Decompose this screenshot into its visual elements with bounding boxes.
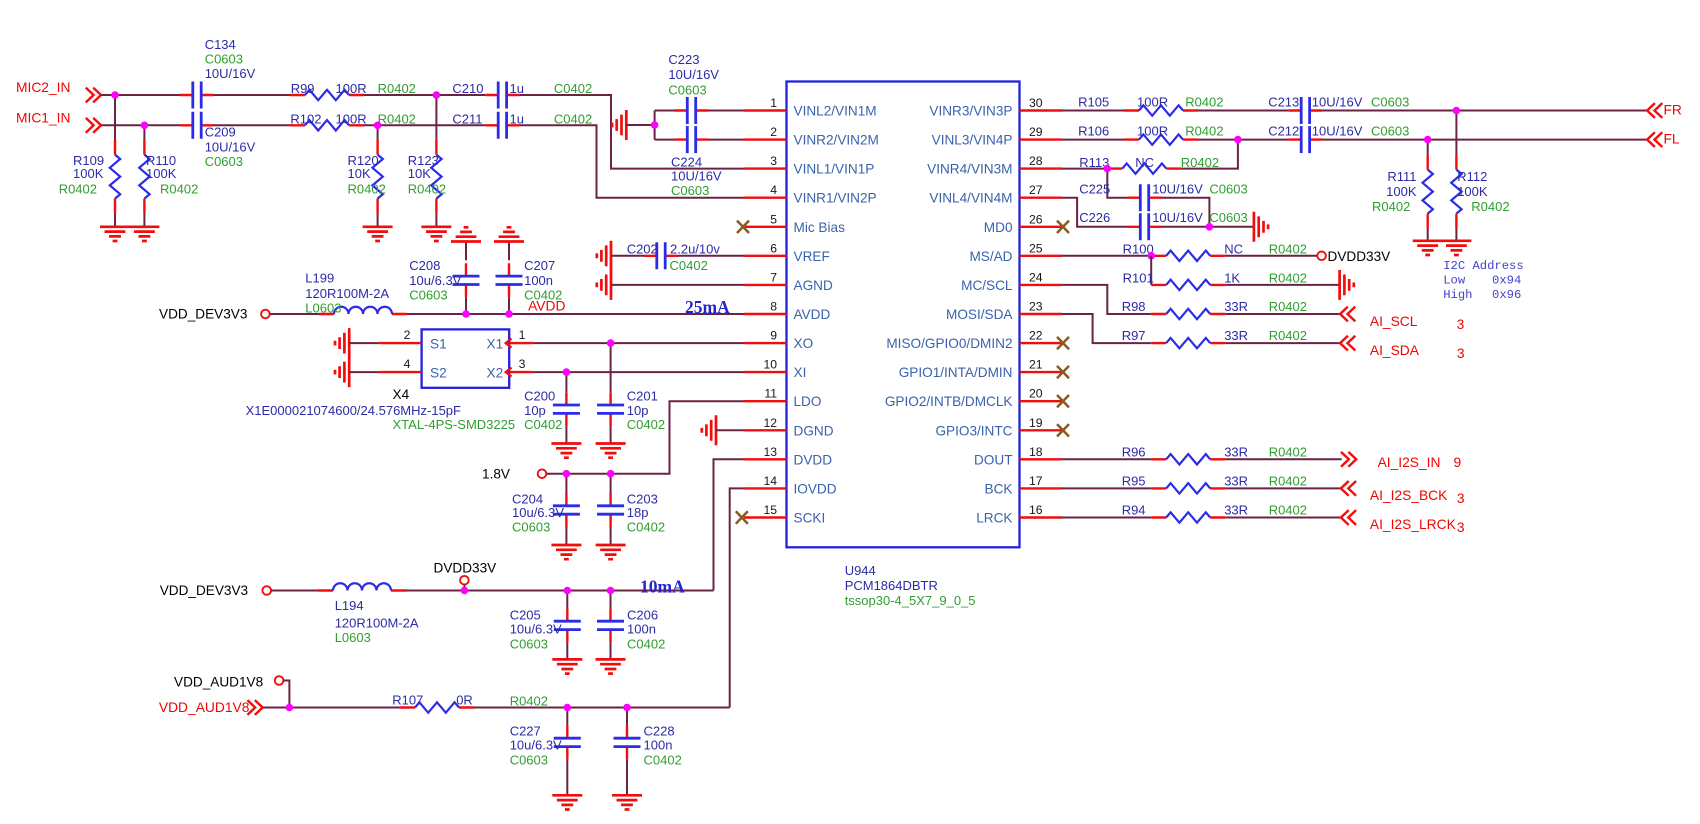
svg-text:100n: 100n — [627, 622, 656, 637]
capacitor C201 — [597, 343, 665, 443]
svg-text:R0402: R0402 — [1269, 328, 1307, 343]
ground for C223/C224 common — [612, 110, 626, 140]
X4 pin 2 S1 — [378, 328, 421, 343]
svg-text:100R: 100R — [1137, 94, 1168, 109]
crystal X4 body — [422, 329, 510, 387]
svg-text:C228: C228 — [644, 724, 675, 739]
svg-text:C0402: C0402 — [670, 258, 708, 273]
ground AGND — [597, 270, 611, 300]
svg-text:X2: X2 — [487, 366, 504, 381]
wire S2 to ground — [349, 371, 378, 373]
svg-text:0x96: 0x96 — [1492, 288, 1521, 302]
svg-text:10U/16V: 10U/16V — [205, 66, 256, 81]
svg-text:10U/16V: 10U/16V — [1152, 210, 1203, 225]
ground C225/C226 — [1254, 212, 1268, 242]
svg-text:C0603: C0603 — [1209, 181, 1247, 196]
svg-text:VINR4/VIN3M: VINR4/VIN3M — [927, 162, 1012, 177]
wire R96 to AI_I2S_IN — [1225, 458, 1342, 460]
svg-text:VINL4/VIN4M: VINL4/VIN4M — [929, 191, 1012, 206]
resistor R100 — [1123, 242, 1307, 262]
wire R98 to AI_SCL — [1225, 313, 1340, 315]
junction 1.8V/C203 — [607, 470, 615, 478]
svg-text:2.2u/10v: 2.2u/10v — [670, 242, 720, 257]
svg-text:R102: R102 — [290, 112, 321, 127]
no-connect X pin 22 — [1057, 337, 1069, 349]
svg-text:R107: R107 — [392, 693, 423, 708]
svg-text:100K: 100K — [1457, 184, 1488, 199]
svg-text:VINR2/VIN2M: VINR2/VIN2M — [794, 133, 879, 148]
capacitor C210 — [452, 81, 592, 109]
wire R99 out to C210 — [364, 94, 485, 96]
svg-text:R0402: R0402 — [59, 182, 97, 197]
svg-text:10: 10 — [763, 358, 777, 372]
inductor L199 — [305, 271, 407, 316]
wire R105 to C213 — [1198, 110, 1288, 112]
wire C134 to R99 — [214, 94, 290, 96]
svg-text:AGND: AGND — [794, 278, 833, 293]
svg-text:21: 21 — [1029, 358, 1043, 372]
wire DGND — [716, 429, 744, 431]
svg-text:3: 3 — [1457, 520, 1465, 535]
capacitor C223 — [655, 52, 744, 124]
svg-text:L199: L199 — [305, 271, 334, 286]
svg-text:VDD_DEV3V3: VDD_DEV3V3 — [159, 307, 247, 322]
resistor R95 — [1122, 474, 1307, 494]
svg-text:AVDD: AVDD — [528, 299, 565, 314]
resistor R105 — [1078, 94, 1223, 115]
svg-text:28: 28 — [1029, 154, 1043, 168]
wire R94 to AI_I2S_LRCK — [1225, 517, 1341, 519]
wire AGND pin 7 — [611, 284, 744, 286]
wire pin 27 down to C226 — [1062, 198, 1128, 227]
svg-text:33R: 33R — [1224, 445, 1248, 460]
no-connect X pin 26 — [1057, 221, 1069, 233]
svg-text:2: 2 — [770, 125, 777, 139]
svg-text:IOVDD: IOVDD — [794, 481, 837, 496]
svg-text:C0603: C0603 — [1371, 94, 1409, 109]
U944 pin 3 VINL1/VIN1P — [744, 154, 874, 177]
svg-text:C213: C213 — [1268, 94, 1299, 109]
junction R113/FL — [1234, 136, 1242, 144]
svg-text:R0402: R0402 — [1269, 503, 1307, 518]
svg-text:XTAL-4PS-SMD3225: XTAL-4PS-SMD3225 — [393, 417, 516, 432]
resistor R120 — [348, 125, 386, 227]
wire pin 25 to R100 — [1062, 255, 1151, 257]
wire R113 up to FL net — [1181, 140, 1238, 169]
svg-text:R0402: R0402 — [1471, 199, 1509, 214]
U944 pin 14 IOVDD — [744, 474, 837, 497]
svg-text:R0402: R0402 — [1269, 242, 1307, 257]
svg-text:MS/AD: MS/AD — [969, 249, 1012, 264]
resistor R111 — [1372, 140, 1433, 241]
svg-text:10u/6.3V: 10u/6.3V — [409, 273, 461, 288]
svg-text:AI_I2S_BCK: AI_I2S_BCK — [1370, 488, 1448, 503]
svg-text:C226: C226 — [1079, 210, 1110, 225]
resistor R101 — [1123, 271, 1307, 291]
svg-text:18p: 18p — [627, 505, 649, 520]
resistor R99 — [290, 81, 416, 100]
port MIC1_IN — [16, 111, 101, 133]
svg-text:C0603: C0603 — [205, 52, 243, 67]
svg-text:AVDD: AVDD — [794, 307, 831, 322]
svg-text:26: 26 — [1029, 212, 1043, 226]
capacitor C202 — [611, 242, 744, 273]
wire DVDD rail — [271, 590, 714, 592]
junction MIC2/R123 — [433, 91, 441, 99]
svg-text:DOUT: DOUT — [974, 452, 1013, 467]
svg-text:24: 24 — [1029, 270, 1043, 284]
svg-text:L0603: L0603 — [305, 301, 341, 316]
wire pin 17 BCK — [1062, 487, 1151, 489]
svg-text:R105: R105 — [1078, 94, 1109, 109]
svg-text:C225: C225 — [1079, 181, 1110, 196]
capacitor C227 — [510, 708, 581, 796]
svg-text:10u/6.3V: 10u/6.3V — [510, 738, 562, 753]
ground S1 — [335, 328, 349, 358]
wire IOVDD pin 14 down to AUD1V8 rail — [730, 488, 744, 707]
junction X1/C201 — [607, 339, 615, 347]
wire C225 right, down to common — [1162, 198, 1210, 227]
ground VREF — [597, 241, 611, 271]
port VDD_DEV3V3 (AVDD rail) — [159, 307, 270, 322]
port VDD_AUD1V8 (sheet entry) — [159, 700, 263, 715]
capacitor C213 — [1268, 94, 1409, 124]
wire DVDD pin 13 down to 10mA rail — [714, 459, 745, 590]
svg-text:AI_SCL: AI_SCL — [1370, 314, 1418, 329]
svg-text:R0402: R0402 — [1269, 271, 1307, 286]
svg-text:100R: 100R — [336, 81, 367, 96]
resistor R107 — [392, 693, 548, 713]
svg-text:C210: C210 — [452, 81, 483, 96]
svg-text:3: 3 — [1457, 317, 1465, 332]
svg-text:12: 12 — [763, 416, 777, 430]
svg-text:22: 22 — [1029, 329, 1043, 343]
svg-text:10U/16V: 10U/16V — [205, 140, 256, 155]
svg-text:C0402: C0402 — [627, 637, 665, 652]
svg-text:VDD_DEV3V3: VDD_DEV3V3 — [160, 583, 248, 598]
ground R111 — [1413, 241, 1443, 255]
svg-text:120R100M-2A: 120R100M-2A — [335, 616, 419, 631]
capacitor C211 — [452, 112, 592, 139]
capacitor C226 — [1079, 210, 1248, 240]
ground C207 (inverted) — [494, 227, 524, 241]
junction C227/rail — [564, 704, 572, 712]
svg-text:DVDD33V: DVDD33V — [1328, 249, 1391, 264]
U944 pin 30 VINR3/VIN3P — [929, 96, 1062, 119]
ground R120 — [363, 227, 393, 241]
svg-text:Low: Low — [1443, 274, 1466, 288]
wire C211 to pin 4 VINR1 — [519, 125, 744, 197]
U944 pin 21 GPIO1/INTA/DMIN — [899, 358, 1062, 381]
svg-text:3: 3 — [770, 154, 777, 168]
svg-text:R96: R96 — [1122, 445, 1146, 460]
wire R106 to C212 — [1198, 139, 1288, 141]
capacitor C207 — [496, 242, 563, 315]
svg-text:VINR1/VIN2P: VINR1/VIN2P — [794, 191, 877, 206]
port FL — [1647, 131, 1680, 147]
resistor R109 — [59, 95, 120, 227]
X4 pin 1 X1 — [506, 328, 534, 348]
ground R110 — [129, 227, 159, 241]
svg-text:4: 4 — [404, 357, 411, 371]
svg-text:18: 18 — [1029, 445, 1043, 459]
capacitor C225 — [1079, 181, 1248, 211]
svg-text:C200: C200 — [524, 389, 555, 404]
svg-text:1K: 1K — [1224, 271, 1240, 286]
U944 pin 5 Mic Bias — [744, 212, 845, 235]
port AI_SCL — [1340, 307, 1465, 332]
svg-text:C207: C207 — [524, 258, 555, 273]
svg-text:100K: 100K — [146, 166, 177, 181]
ground C206 — [596, 659, 626, 673]
svg-text:C211: C211 — [452, 112, 482, 127]
svg-text:C224: C224 — [671, 154, 702, 169]
svg-text:R0402: R0402 — [160, 182, 198, 197]
wire C226 right to ground — [1162, 226, 1254, 228]
resistor R110 — [139, 125, 198, 227]
capacitor C212 — [1268, 123, 1409, 153]
svg-text:High: High — [1443, 288, 1472, 302]
svg-text:100n: 100n — [524, 273, 553, 288]
junction bracket — [651, 121, 659, 129]
svg-text:C0603: C0603 — [205, 154, 243, 169]
svg-text:U944: U944 — [845, 563, 876, 578]
svg-text:9: 9 — [1454, 455, 1462, 470]
svg-text:1u: 1u — [510, 81, 524, 96]
svg-text:27: 27 — [1029, 183, 1043, 197]
U944 pin 22 MISO/GPIO0/DMIN2 — [886, 329, 1062, 352]
junction MIC1/R120 — [374, 122, 382, 130]
junction pin25/R101 — [1147, 252, 1155, 260]
svg-text:0R: 0R — [456, 693, 473, 708]
U944 pin 8 AVDD — [744, 300, 830, 323]
svg-text:AI_I2S_IN: AI_I2S_IN — [1378, 455, 1441, 470]
svg-text:25mA: 25mA — [685, 297, 730, 317]
svg-text:C0603: C0603 — [671, 183, 709, 198]
ground R109 — [100, 227, 130, 241]
U944 pin 28 VINR4/VIN3M — [927, 154, 1062, 177]
no-connect X pin 20 — [1057, 395, 1069, 407]
svg-text:AI_I2S_LRCK: AI_I2S_LRCK — [1370, 517, 1457, 532]
junction FR/R112 — [1453, 107, 1461, 115]
svg-text:AI_SDA: AI_SDA — [1370, 343, 1420, 358]
svg-text:14: 14 — [763, 474, 777, 488]
svg-text:33R: 33R — [1224, 328, 1248, 343]
svg-text:4: 4 — [770, 183, 777, 197]
svg-text:7: 7 — [770, 270, 777, 284]
port VDD_AUD1V8 (circle) — [174, 675, 289, 708]
no-connect X pin 15 SCKI — [736, 511, 748, 523]
ground C200 — [551, 444, 581, 458]
wire R97 to AI_SDA — [1225, 342, 1340, 344]
port AI_I2S_BCK — [1341, 481, 1465, 506]
resistor R112 — [1451, 111, 1509, 241]
port FR — [1647, 102, 1682, 118]
U944 pin 9 XO — [744, 329, 813, 352]
svg-text:3: 3 — [1457, 491, 1465, 506]
svg-text:30: 30 — [1029, 96, 1043, 110]
junction C206/rail — [607, 587, 615, 595]
svg-text:120R100M-2A: 120R100M-2A — [305, 286, 389, 301]
svg-text:C223: C223 — [668, 52, 699, 67]
svg-text:1: 1 — [770, 96, 777, 110]
svg-text:GPIO2/INTB/DMCLK: GPIO2/INTB/DMCLK — [885, 394, 1013, 409]
svg-text:10mA: 10mA — [640, 577, 685, 597]
svg-text:29: 29 — [1029, 125, 1043, 139]
ground C227 — [552, 795, 582, 809]
svg-text:R0402: R0402 — [348, 182, 386, 197]
capacitor C204 — [512, 474, 580, 545]
svg-text:R0402: R0402 — [1185, 123, 1223, 138]
junction pin28 — [1104, 165, 1112, 173]
U944 pin 17 BCK — [985, 474, 1062, 497]
svg-text:R98: R98 — [1122, 299, 1146, 314]
svg-text:23: 23 — [1029, 300, 1043, 314]
U944 pin 13 DVDD — [744, 445, 832, 468]
svg-text:16: 16 — [1029, 503, 1043, 517]
svg-text:C201: C201 — [627, 389, 658, 404]
svg-text:10U/16V: 10U/16V — [1312, 94, 1363, 109]
svg-text:MIC1_IN: MIC1_IN — [16, 111, 70, 126]
svg-text:C206: C206 — [627, 608, 658, 623]
svg-text:C0603: C0603 — [1209, 210, 1247, 225]
no-connect X pin 5 Mic Bias — [737, 221, 749, 233]
svg-text:VDD_AUD1V8: VDD_AUD1V8 — [174, 675, 263, 690]
U944 pin 24 MC/SCL — [961, 270, 1062, 293]
U944 pin 25 MS/AD — [969, 241, 1062, 263]
svg-text:33R: 33R — [1224, 299, 1248, 314]
svg-text:C205: C205 — [510, 608, 541, 623]
svg-text:PCM1864DBTR: PCM1864DBTR — [845, 578, 938, 593]
svg-text:100n: 100n — [644, 738, 673, 753]
svg-text:20: 20 — [1029, 387, 1043, 401]
ground C201 — [596, 444, 626, 458]
svg-text:19: 19 — [1029, 416, 1043, 430]
wire net MIC2_IN — [101, 94, 180, 96]
port MIC2_IN — [16, 80, 101, 102]
svg-text:10u/6.3V: 10u/6.3V — [512, 505, 564, 520]
wire net MIC1_IN — [101, 124, 180, 126]
U944 pin 11 LDO — [744, 387, 821, 410]
svg-text:33R: 33R — [1224, 503, 1248, 518]
svg-text:9: 9 — [770, 329, 777, 343]
svg-text:tssop30-4_5X7_9_0_5: tssop30-4_5X7_9_0_5 — [845, 593, 976, 608]
U944 pin 26 MD0 — [984, 212, 1062, 235]
svg-text:100R: 100R — [1137, 123, 1168, 138]
resistor R113 — [1079, 155, 1219, 174]
junction FL/R111 — [1424, 136, 1432, 144]
U944 pin 23 MOSI/SDA — [946, 300, 1062, 323]
svg-text:R0402: R0402 — [1269, 445, 1307, 460]
wire C209 to R102 — [214, 124, 290, 126]
junction circle/rail — [286, 704, 294, 712]
ground C228 — [612, 795, 642, 809]
port AI_I2S_LRCK — [1341, 510, 1465, 535]
capacitor C208 — [409, 242, 479, 315]
svg-text:25: 25 — [1029, 241, 1043, 255]
capacitor C209 — [180, 112, 256, 169]
port AI_I2S_IN — [1341, 452, 1462, 470]
svg-text:1.8V: 1.8V — [482, 467, 510, 482]
svg-text:MISO/GPIO0/DMIN2: MISO/GPIO0/DMIN2 — [886, 336, 1012, 351]
wire R101 to ground — [1225, 284, 1339, 286]
svg-text:VINL2/VIN1M: VINL2/VIN1M — [794, 104, 877, 119]
svg-text:MOSI/SDA: MOSI/SDA — [946, 307, 1013, 322]
ground C204 — [551, 545, 581, 559]
junction MIC2/R109 — [111, 91, 119, 99]
svg-text:C0603: C0603 — [1371, 123, 1409, 138]
resistor R98 — [1122, 299, 1307, 319]
svg-text:GPIO3/INTC: GPIO3/INTC — [935, 423, 1012, 438]
resistor R94 — [1122, 503, 1307, 523]
junction DVDD33V — [461, 587, 469, 595]
resistor R96 — [1122, 445, 1307, 465]
svg-text:C0603: C0603 — [668, 83, 706, 98]
junction C208/AVDD — [462, 310, 470, 318]
svg-text:R0402: R0402 — [408, 182, 446, 197]
svg-text:100R: 100R — [336, 112, 367, 127]
svg-text:R0402: R0402 — [510, 694, 548, 709]
capacitor C205 — [510, 591, 581, 660]
svg-text:R101: R101 — [1123, 271, 1154, 286]
U944 pin 6 VREF — [744, 241, 830, 263]
ground C208 (inverted) — [451, 227, 481, 241]
no-connect X pin 21 — [1057, 366, 1069, 378]
port VDD_DEV3V3 (DVDD rail) — [160, 583, 271, 598]
svg-text:10u/6.3V: 10u/6.3V — [510, 622, 562, 637]
port DVDD33V (MS/AD) — [1317, 249, 1390, 264]
U944 pin 12 DGND — [744, 416, 834, 439]
capacitor C224 — [655, 126, 744, 198]
svg-text:10U/16V: 10U/16V — [668, 67, 719, 82]
no-connect X pin 19 — [1057, 424, 1069, 436]
ground R123 — [421, 227, 451, 241]
svg-text:LDO: LDO — [794, 394, 822, 409]
svg-text:C208: C208 — [409, 258, 440, 273]
svg-text:C0402: C0402 — [524, 417, 562, 432]
port 1.8V — [482, 467, 546, 482]
svg-text:R97: R97 — [1122, 328, 1146, 343]
U944 pin 2 VINR2/VIN2M — [744, 125, 879, 148]
svg-text:C0402: C0402 — [627, 417, 665, 432]
svg-text:C134: C134 — [205, 37, 236, 52]
svg-text:FR: FR — [1664, 102, 1682, 117]
svg-text:BCK: BCK — [985, 481, 1013, 496]
svg-text:R95: R95 — [1122, 474, 1146, 489]
junction C228/rail — [623, 704, 631, 712]
svg-text:L194: L194 — [335, 598, 364, 613]
svg-text:DGND: DGND — [794, 423, 834, 438]
svg-text:3: 3 — [1457, 346, 1465, 361]
svg-text:33R: 33R — [1224, 474, 1248, 489]
svg-text:L0603: L0603 — [335, 630, 371, 645]
wire C213 to FR — [1322, 110, 1647, 112]
junction X2/C200 — [563, 368, 571, 376]
junction C225/C226 — [1206, 223, 1214, 231]
svg-text:LRCK: LRCK — [976, 511, 1012, 526]
svg-text:X1E000021074600/24.576MHz-15pF: X1E000021074600/24.576MHz-15pF — [246, 403, 461, 418]
op-amp U944 PCM1864DBTR IC body — [787, 82, 1020, 548]
svg-text:10K: 10K — [348, 166, 371, 181]
svg-text:C0603: C0603 — [409, 287, 447, 302]
wire R102 out to C211 — [364, 124, 485, 126]
svg-text:DVDD33V: DVDD33V — [434, 561, 497, 576]
capacitor C228 — [614, 708, 682, 796]
svg-text:VINR3/VIN3P: VINR3/VIN3P — [929, 104, 1012, 119]
svg-text:100K: 100K — [73, 166, 104, 181]
svg-text:R106: R106 — [1078, 123, 1109, 138]
svg-text:C0603: C0603 — [512, 520, 550, 535]
